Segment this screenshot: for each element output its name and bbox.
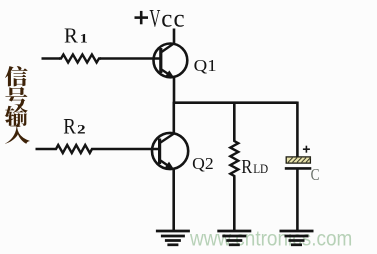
svg-text:R: R — [64, 24, 79, 48]
wire RLD to ground — [233, 177, 236, 231]
label R1 — [64, 24, 88, 48]
label 信号输入 (signal input) — [5, 66, 30, 144]
resistor RLD — [230, 140, 238, 178]
ground (Q2 emitter) — [156, 231, 190, 245]
wire bus to RLD — [233, 103, 236, 141]
ground (RLD) — [217, 231, 251, 245]
transistor Q1 — [154, 43, 188, 78]
svg-text:R: R — [63, 113, 76, 138]
svg-text:c: c — [161, 6, 172, 33]
label RLD — [241, 156, 268, 178]
wire bus horizontal — [173, 101, 298, 104]
svg-text:c: c — [174, 6, 185, 33]
capacitor C — [285, 146, 312, 169]
wire Q2 emitter to ground — [172, 169, 175, 231]
wire bus node to Q2 collector — [173, 102, 176, 134]
resistor R2 — [36, 145, 160, 153]
svg-text:Q1: Q1 — [194, 56, 217, 75]
svg-text:Q2: Q2 — [192, 154, 214, 173]
svg-text:R: R — [241, 156, 253, 178]
svg-text:LD: LD — [253, 162, 268, 176]
wire bus corner to capacitor — [296, 102, 299, 158]
ground (C) — [280, 231, 314, 245]
svg-text:2: 2 — [77, 121, 86, 136]
wire Vcc to Q1 collector — [173, 29, 176, 46]
svg-text:C: C — [311, 165, 320, 184]
wire capacitor to ground — [296, 168, 299, 230]
svg-text:V: V — [149, 6, 160, 33]
svg-text:1: 1 — [80, 32, 88, 46]
wire Q1 emitter to bus node — [173, 77, 176, 104]
resistor R1 — [42, 55, 160, 63]
label +Vcc — [135, 6, 185, 33]
svg-text:www.cntronics.com: www.cntronics.com — [189, 226, 352, 250]
label R2 — [63, 113, 85, 138]
transistor Q2 — [152, 133, 188, 169]
